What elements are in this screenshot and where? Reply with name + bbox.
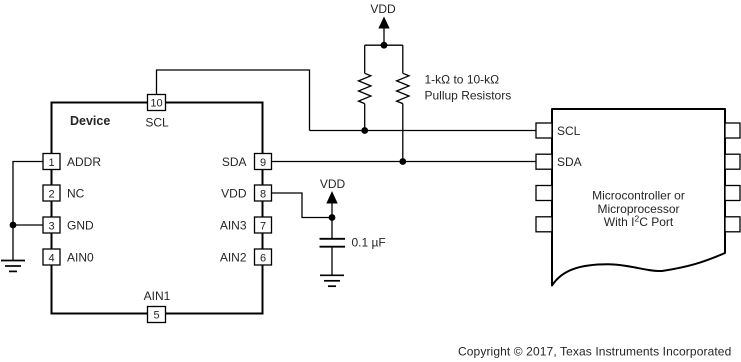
svg-text:SCL: SCL xyxy=(145,116,169,130)
pin 5 AIN1 xyxy=(144,289,171,323)
label microcontroller text xyxy=(592,189,685,230)
power VDD (decoupling) xyxy=(320,177,346,218)
microcontroller pin (right 3) xyxy=(725,186,740,201)
svg-text:AIN2: AIN2 xyxy=(220,250,247,264)
svg-text:0.1 µF: 0.1 µF xyxy=(352,235,386,249)
svg-text:Device: Device xyxy=(70,114,110,128)
svg-text:4: 4 xyxy=(48,252,54,264)
pin 8 VDD xyxy=(221,185,271,201)
wire pin1 ADDR to ground xyxy=(13,162,43,261)
node SDA junction xyxy=(399,158,406,165)
svg-text:SCL: SCL xyxy=(557,124,581,138)
pin 10 SCL xyxy=(145,95,169,130)
wire pin3 GND stub xyxy=(13,224,43,226)
pin 1 ADDR xyxy=(43,154,101,170)
svg-text:1-kΩ to 10-kΩ: 1-kΩ to 10-kΩ xyxy=(425,73,500,87)
svg-text:9: 9 xyxy=(260,157,266,169)
svg-text:GND: GND xyxy=(67,218,94,232)
svg-text:SDA: SDA xyxy=(557,155,582,169)
pin 2 NC xyxy=(43,185,85,201)
svg-text:3: 3 xyxy=(48,220,54,232)
svg-text:AIN0: AIN0 xyxy=(67,250,94,264)
label pullup resistors value xyxy=(425,73,512,103)
microcontroller U2 outline xyxy=(552,109,725,286)
wire resistor top bus xyxy=(365,44,403,46)
microcontroller pin SDA (left 2) xyxy=(536,154,582,169)
svg-text:1: 1 xyxy=(48,157,54,169)
svg-text:VDD: VDD xyxy=(370,2,396,16)
svg-text:ADDR: ADDR xyxy=(67,155,101,169)
microcontroller pin SCL (left 1) xyxy=(536,123,581,138)
svg-text:SDA: SDA xyxy=(222,155,247,169)
wire SCL net xyxy=(310,130,537,132)
device U1 outline xyxy=(52,103,263,314)
microcontroller pin (right 4) xyxy=(725,217,740,232)
svg-text:VDD: VDD xyxy=(221,186,247,200)
svg-text:5: 5 xyxy=(153,310,159,322)
svg-text:Pullup Resistors: Pullup Resistors xyxy=(425,89,512,103)
wire pin8 VDD to decoupling node xyxy=(272,193,333,218)
label copyright xyxy=(458,345,731,359)
svg-text:8: 8 xyxy=(260,188,266,200)
ground (left) xyxy=(1,261,25,272)
svg-text:6: 6 xyxy=(260,252,266,264)
svg-text:Microcontroller or: Microcontroller or xyxy=(592,189,685,203)
pin 3 GND xyxy=(43,217,94,233)
ground (below capacitor) xyxy=(320,275,344,286)
node VDD junction xyxy=(381,42,388,49)
svg-text:AIN3: AIN3 xyxy=(220,218,247,232)
label Device xyxy=(70,114,110,128)
node SCL junction xyxy=(361,127,368,134)
resistor pullup R2 xyxy=(397,45,409,161)
svg-text:NC: NC xyxy=(67,186,85,200)
microcontroller pin (right 2) xyxy=(725,154,740,169)
power VDD (top) xyxy=(370,2,396,45)
wire pin10 to SCL net xyxy=(157,70,310,131)
node GND junction xyxy=(10,222,17,229)
svg-text:AIN1: AIN1 xyxy=(144,289,171,303)
node decoupling junction xyxy=(329,214,336,221)
pin 4 AIN0 xyxy=(43,249,94,265)
microcontroller pin (right 1) xyxy=(725,123,740,138)
capacitor C1 0.1 uF xyxy=(320,218,346,276)
svg-text:10: 10 xyxy=(150,98,162,110)
microcontroller pin (left 3) xyxy=(536,186,552,201)
svg-text:7: 7 xyxy=(260,220,266,232)
pin 9 SDA xyxy=(222,154,272,170)
svg-text:Copyright © 2017, Texas Instru: Copyright © 2017, Texas Instruments Inco… xyxy=(458,345,731,359)
pin 7 AIN3 xyxy=(220,217,272,233)
svg-text:2: 2 xyxy=(48,188,54,200)
microcontroller pin (left 4) xyxy=(536,217,552,232)
resistor pullup R1 xyxy=(359,45,371,130)
pin 6 AIN2 xyxy=(220,249,272,265)
svg-text:VDD: VDD xyxy=(320,177,346,191)
wire SDA net xyxy=(272,161,537,163)
label capacitor value xyxy=(352,235,386,249)
svg-text:With I2C Port: With I2C Port xyxy=(604,214,674,230)
